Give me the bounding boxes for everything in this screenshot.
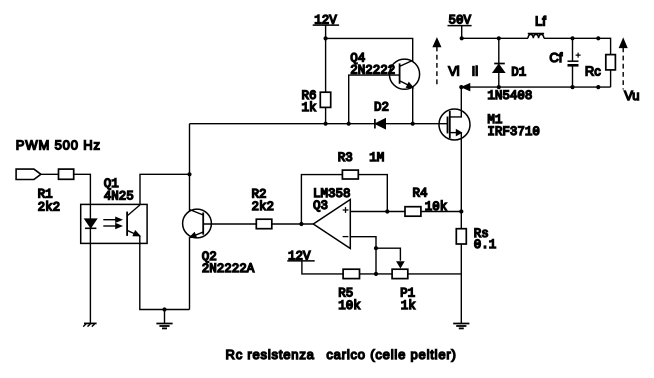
label LM358 Q3 [313,187,351,213]
node dot drain junction [459,85,463,89]
node dot Rc bottom tap [596,85,600,89]
arrow Vi dashed [433,39,440,88]
svg-text:1N5408: 1N5408 [487,89,532,103]
resistor R1 [59,169,74,179]
wire top rail to Lf [462,37,528,39]
svg-text:IRF3710: IRF3710 [487,125,540,139]
caption [226,347,457,362]
label R1 2k2 [38,188,61,215]
wire opto collector up and right to node A [140,174,190,205]
resistor R2 [256,219,272,229]
wire terminal to R1 [41,173,59,175]
supply 12V label (top) [313,14,339,28]
svg-text:Lf: Lf [535,13,546,28]
svg-text:2k2: 2k2 [38,201,61,215]
svg-text:Q3: Q3 [313,199,328,213]
label R3 1M [338,151,385,165]
label P1 1k [400,286,416,312]
svg-text:1M: 1M [369,151,384,165]
node dot D1 anode [497,85,501,89]
potentiometer P1 body [392,269,408,278]
node divider junction dot upper [374,246,378,250]
wire node A down to Q2 collector [189,124,191,212]
svg-text:Rc resistenza carico (celle p: Rc resistenza carico (celle peltier) [226,347,457,362]
ground (emitter rail, earth style) [156,310,172,329]
svg-text:R1: R1 [38,188,53,202]
wire LED cathode down to ground [89,228,91,323]
node dot D1 cathode rail [497,36,501,40]
svg-text:Vu: Vu [624,88,639,103]
node Rs top junction dot [459,209,463,213]
resistor R3 [342,170,358,179]
wire opto emitter down to ground rail [140,236,190,310]
opto LED diode [85,219,96,228]
transistor Q4 [389,59,419,89]
ground (Rs, earth style) [453,324,469,329]
junction dot ground rail [162,307,166,311]
wire Rc bottom to output rail [610,70,612,87]
node dot Cf top [570,36,574,40]
node dot Rc top tap [596,36,600,40]
opto light arrow lower [103,224,121,228]
svg-text:4N25: 4N25 [104,189,134,203]
svg-text:R4: R4 [413,187,428,201]
supply 50V label [448,14,472,28]
inductor Lf [528,34,544,39]
label Q2 2N2222A [202,250,255,276]
input terminal PWM [16,169,41,179]
label Rs 0.1 [474,227,497,252]
wire R4 to Rs node [421,211,461,213]
svg-text:10k: 10k [338,299,361,313]
opto light arrow upper [103,218,121,222]
node divider junction dot lower [374,272,378,276]
label D2 [374,101,389,115]
node 12V junction dot [324,36,328,40]
node plus-input junction dot [385,209,389,213]
label Cf [549,50,562,65]
capacitor Cf [568,38,581,87]
svg-text:D2: D2 [374,101,389,115]
wire R6 to gate rail [325,107,327,123]
wire R5 to P1 [360,273,393,275]
arrow Vu dashed [620,39,627,89]
label Vi [448,63,459,78]
svg-text:Rc: Rc [585,64,601,79]
transistor Q2 [183,209,212,238]
mosfet M1 [439,87,470,140]
label R5 10k [338,286,361,312]
node dot Q4 base/gate rail [347,122,351,126]
ground (LED, chassis style) [83,323,96,326]
wire gate rail left segment (node A to D2 cathode) [190,123,375,125]
opto phototransistor [127,205,140,236]
label Vu [624,88,639,103]
svg-text:2N2222A: 2N2222A [202,262,255,276]
wire R2 to op-amp output node [272,223,314,225]
wire plus input to R4 [350,211,405,213]
wire Q4 base left and down to gate rail [349,75,400,124]
wire R1 to corner down to opto LED [74,174,91,219]
label Q1 4N25 [104,177,134,204]
label Rc [585,64,601,79]
svg-text:Vi: Vi [448,63,459,78]
wire Q4 emitter down to gate rail [412,87,414,124]
svg-text:D1: D1 [511,65,526,79]
label 1N5408 [487,89,532,103]
label PWM 500 Hz [16,137,101,152]
node dot R6/gate rail [324,122,328,126]
svg-text:Ii: Ii [472,63,479,78]
node op-amp output junction dot [299,222,303,226]
resistor R4 [405,207,421,217]
op-amp U1 LM358 triangle [313,200,350,249]
wire gate rail right segment (D2 anode to M1 gate) [385,123,447,125]
svg-text:Cf: Cf [549,50,562,65]
label Lf [535,13,546,28]
wire Q2 base to R2 [203,223,256,225]
diode D1 [493,38,505,87]
wire wiper branch to P1 [376,248,400,261]
wire P1 to Rs bottom leg [408,273,462,275]
wire Rs to ground [460,244,462,324]
label R6 1k [302,89,317,115]
node A junction dot (opto collector / Q2 collector) [187,172,191,176]
op-amp plus input marker [343,207,349,213]
resistor Rc [606,55,616,70]
wire feedback: output up over to R3 [301,175,342,224]
wire 12V node to Q4 collector [326,38,413,61]
svg-text:R3: R3 [338,151,353,165]
svg-text:0.1: 0.1 [474,238,497,252]
diode D2 [375,119,385,129]
wire output bottom rail [461,86,610,88]
label D1 [511,65,526,79]
svg-text:2k2: 2k2 [252,200,275,214]
wire R3 to plus-input node [358,175,387,212]
label M1 IRF3710 [487,113,540,139]
node dot Q4 emitter/gate rail [411,122,415,126]
P1 wiper arrowhead [397,262,403,267]
resistor Rs [456,229,466,244]
wire M1 source down to Rs [460,138,462,229]
label R2 2k2 [252,187,275,214]
wire minus input down to divider [350,237,376,274]
wire 12V tick down to node [325,25,327,92]
wire 12V to R5 [302,261,343,274]
resistor R6 [320,92,330,107]
svg-text:1k: 1k [401,299,416,313]
svg-text:1k: 1k [302,101,317,115]
wire Q2 emitter down [189,238,191,310]
wire 50V tick to rail [461,26,463,39]
resistor R5 [343,269,359,278]
optocoupler U-box Q1 [81,204,147,243]
wire Lf to right corner down to Rc [544,38,611,54]
node dot Cf bottom [570,85,574,89]
op-amp minus input marker [343,236,349,238]
node dot 50V rail start [460,36,464,40]
supply 12V label (bottom) [287,249,314,263]
svg-text:PWM 500 Hz: PWM 500 Hz [16,137,101,152]
label R4 10k [413,187,448,214]
arrowhead Ii into drain node [462,84,469,90]
label Ii [472,63,479,78]
label Q4 2N2222 [350,51,395,77]
